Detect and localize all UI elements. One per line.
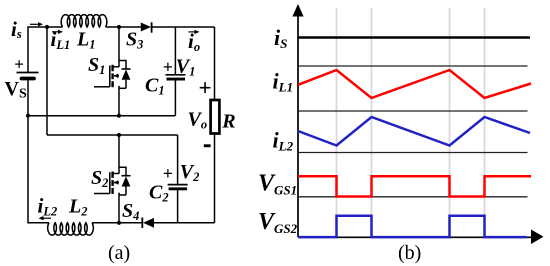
waveform V_GS1 red	[298, 176, 531, 196]
battery VS plate short thick	[22, 77, 35, 81]
arrow i_o	[189, 30, 200, 34]
wire S1 source	[118, 86, 120, 116]
wire top rail middle segment	[106, 26, 141, 28]
mosfet S2	[94, 167, 131, 195]
separator line C	[298, 152, 528, 154]
wire second vertical from top rail to lower loop	[46, 27, 48, 135]
gridline t4	[484, 8, 486, 237]
node dot top second vertical	[45, 25, 49, 29]
svg-text:(a): (a)	[108, 242, 130, 264]
svg-text:+: +	[14, 55, 24, 74]
battery VS plate long	[17, 72, 39, 74]
resistor R load	[211, 100, 220, 134]
wire C1 top lead	[174, 27, 176, 75]
waveform i_S line	[298, 36, 530, 39]
mosfet S1	[94, 61, 131, 89]
wire top rail left segment	[28, 27, 63, 73]
wire S1 drain	[118, 27, 120, 67]
wire bottom rail right	[154, 222, 215, 224]
wire right rail lower	[214, 134, 216, 223]
arrow i_s	[30, 22, 43, 26]
separator line B	[298, 110, 528, 112]
wire S2 drain	[118, 135, 120, 174]
capacitor C1	[166, 75, 186, 81]
node dot left rail middle	[26, 114, 30, 118]
node dot S1 drain	[117, 25, 121, 29]
wire C1 bottom lead	[174, 80, 176, 115]
waveform i_L1 red	[298, 70, 531, 98]
wire bottom rail left	[28, 222, 49, 224]
wire lower middle rail y135	[47, 134, 178, 136]
node dot S2 drain	[117, 133, 121, 137]
waveform i_L2 blue	[298, 117, 530, 146]
diode S4	[142, 218, 154, 229]
inductor L2	[48, 223, 94, 235]
wire right rail upper	[214, 27, 216, 100]
arrow i_L2	[39, 216, 52, 220]
wire C2 bottom lead	[177, 190, 179, 223]
wire left rail below battery	[27, 80, 29, 223]
wire top rail right segment	[152, 26, 214, 28]
gridline t1	[336, 8, 338, 237]
separator line D	[298, 196, 528, 198]
wire C2 top lead	[177, 135, 179, 184]
wire S2 source	[118, 193, 120, 224]
arrow i_L1	[52, 30, 63, 34]
gridline t3	[449, 8, 451, 237]
label minus Vo	[204, 144, 211, 147]
capacitor C2	[168, 185, 188, 191]
gridline t2	[371, 8, 373, 237]
node dot S1 source	[117, 114, 121, 118]
svg-text:+: +	[199, 76, 212, 101]
wire middle rail y116	[28, 115, 175, 117]
diode S3	[141, 22, 152, 32]
waveform V_GS2 blue	[298, 216, 527, 237]
svg-text:+: +	[163, 164, 173, 184]
node dot S2 source bottom	[117, 221, 121, 225]
time axis	[298, 230, 544, 245]
vertical axis	[292, 4, 303, 237]
svg-text:(b): (b)	[398, 242, 421, 264]
wire bottom rail middle	[92, 222, 142, 224]
svg-text:R: R	[221, 111, 235, 133]
svg-text:+: +	[163, 57, 173, 77]
inductor L1	[61, 15, 107, 27]
separator line A	[298, 65, 528, 67]
